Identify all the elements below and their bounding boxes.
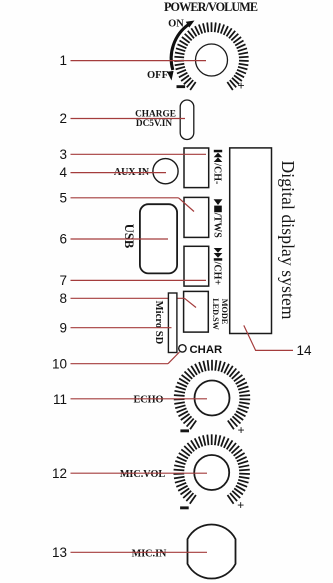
label 9 <box>59 320 67 335</box>
svg-text:8: 8 <box>59 291 67 306</box>
svg-text:10: 10 <box>52 356 67 371</box>
label 1 <box>59 53 67 68</box>
Micro SD slot <box>168 293 177 353</box>
svg-text:MIC.IN: MIC.IN <box>132 548 167 559</box>
OFF text <box>147 70 168 81</box>
echo knob tick ring <box>174 360 250 430</box>
Digital display system text (rotated) <box>278 161 298 320</box>
wire: label 13 leader line <box>71 551 208 553</box>
AUX IN text <box>114 167 150 178</box>
svg-text:MIC.VOL: MIC.VOL <box>120 469 166 480</box>
echo minus sign <box>180 429 189 432</box>
svg-text:POWER/VOLUME: POWER/VOLUME <box>164 0 258 14</box>
svg-text:ECHO: ECHO <box>133 394 163 405</box>
wire: label 9 leader line <box>71 327 172 329</box>
svg-text:5: 5 <box>59 191 67 206</box>
skip-back icon + /CH- label (rotated) <box>212 150 223 185</box>
button MODE/LED.SW <box>184 291 209 332</box>
echo knob circle <box>195 381 230 416</box>
svg-text:DC5V.IN: DC5V.IN <box>136 119 173 129</box>
svg-text:9: 9 <box>59 320 67 335</box>
wire: label 6 leader line <box>71 238 169 240</box>
svg-text:CHAR: CHAR <box>190 344 223 356</box>
play/stop icon + /TWS label (rotated) <box>212 199 223 238</box>
label 2 <box>59 111 67 126</box>
MIC.IN text <box>132 548 167 559</box>
mic vol plus sign <box>237 499 244 513</box>
svg-text:14: 14 <box>297 343 313 358</box>
mic in jack (flattened circle) <box>188 524 236 578</box>
power/volume knob label text <box>164 0 258 14</box>
label 4 <box>59 165 67 180</box>
svg-text:CHARGE: CHARGE <box>135 109 176 119</box>
wire: label 2 leader line <box>71 118 186 120</box>
svg-text:LED.SW: LED.SW <box>211 298 220 330</box>
svg-text:USB: USB <box>122 224 136 249</box>
button play/TWS <box>184 197 209 237</box>
mic vol knob tick ring <box>174 434 250 504</box>
digital display window <box>230 148 272 334</box>
USB port <box>140 204 177 273</box>
power knob minus sign <box>177 85 186 88</box>
wire: label 12 leader line <box>71 472 208 474</box>
label 6 <box>59 232 67 247</box>
svg-text:+: + <box>237 424 244 438</box>
power knob circle <box>196 44 228 76</box>
wire: label 3 leader line <box>71 153 207 155</box>
power knob plus sign <box>237 79 244 93</box>
label 5 <box>59 191 67 206</box>
power knob tick ring <box>174 22 248 90</box>
AUX IN jack circle <box>153 159 178 184</box>
svg-text:4: 4 <box>59 165 67 180</box>
svg-text:1: 1 <box>59 53 67 68</box>
mic vol minus sign <box>180 506 189 509</box>
label 3 <box>59 147 67 162</box>
MIC.VOL text <box>120 469 166 480</box>
power knob ON/OFF arc arrow <box>167 21 195 81</box>
wire: label 14 leader line <box>244 325 293 350</box>
button skip/CH+ <box>184 246 209 286</box>
echo plus sign <box>237 424 244 438</box>
svg-text:ON: ON <box>168 19 184 30</box>
wire: label 11 leader line <box>71 398 208 400</box>
skip-forward icon + /CH+ label (rotated) <box>212 248 223 285</box>
label 7 <box>59 273 67 288</box>
svg-text:12: 12 <box>52 466 67 481</box>
svg-text:13: 13 <box>52 545 67 560</box>
svg-text:2: 2 <box>59 111 67 126</box>
svg-text:11: 11 <box>53 392 67 407</box>
button CH- (skip back) <box>184 148 209 188</box>
svg-text:/CH-: /CH- <box>212 162 223 184</box>
svg-text:/TWS: /TWS <box>212 212 223 238</box>
wire: label 5 leader line <box>71 198 195 212</box>
USB text (rotated) <box>122 224 136 249</box>
ON text <box>168 19 184 30</box>
svg-text:6: 6 <box>59 232 67 247</box>
label 13 <box>52 545 67 560</box>
svg-text:+: + <box>237 79 244 93</box>
svg-text:+: + <box>237 499 244 513</box>
svg-text:Digital display system: Digital display system <box>278 161 298 320</box>
wire: label 7 leader line <box>71 279 207 281</box>
label 8 <box>59 291 67 306</box>
wire: label 1 leader line <box>71 60 207 62</box>
charge DC5V.IN text <box>135 109 176 129</box>
MODE LED.SW label (rotated, two lines) <box>211 298 229 330</box>
svg-text:/CH+: /CH+ <box>212 261 223 286</box>
svg-text:MODE: MODE <box>220 299 229 325</box>
label 11 <box>53 392 67 407</box>
mic vol knob circle <box>194 455 229 490</box>
CHAR charge LED circle <box>179 345 186 352</box>
svg-text:Micro SD: Micro SD <box>153 301 164 345</box>
wire: label 4 leader line <box>71 172 167 174</box>
label 14 <box>297 343 313 358</box>
svg-text:OFF: OFF <box>147 70 168 81</box>
CHAR text <box>190 344 223 356</box>
svg-text:7: 7 <box>59 273 67 288</box>
charge port (micro USB pill) <box>180 100 194 140</box>
label 12 <box>52 466 67 481</box>
wire: label 8 leader line <box>71 298 197 307</box>
label 10 <box>52 356 67 371</box>
ECHO text <box>133 394 163 405</box>
Micro SD text (rotated) <box>153 301 164 345</box>
svg-text:3: 3 <box>59 147 67 162</box>
wire: label 10 leader line <box>71 352 180 364</box>
